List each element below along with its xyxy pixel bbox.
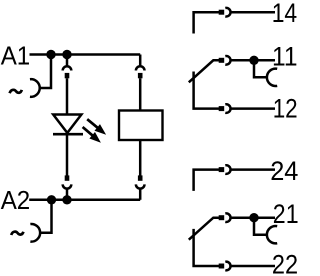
svg-text:22: 22 [272, 250, 298, 276]
wire LED anode [66, 78, 69, 114]
wire A1 horizontal rail [30, 53, 141, 56]
connector female arc (row 21) [225, 213, 230, 222]
svg-text:A1: A1 [1, 41, 31, 71]
node junction dot 2 on A2 rail [62, 195, 71, 204]
terminal label 24 [270, 156, 298, 186]
wire row 11 to terminal [231, 59, 275, 62]
node junction dot 2 on A1 rail [62, 50, 71, 59]
wire LED cathode [66, 134, 69, 175]
A1 base socket contact arc [30, 79, 40, 97]
AC tilde symbol at A1 [10, 90, 22, 93]
terminal label A2 [1, 185, 31, 215]
contact blade (common 11) [189, 60, 219, 82]
connector male pin square (coil branch, bottom) [138, 175, 143, 180]
wire socket drop for terminal 11 [254, 60, 267, 77]
wire A2 socket drop [40, 200, 51, 233]
node junction dot on row 11 [249, 56, 258, 65]
base socket contact arc terminal 11 [267, 69, 277, 86]
terminal label 14 [272, 0, 298, 28]
wire A1 socket drop [40, 55, 51, 89]
connector male pin square (row 11) [219, 58, 225, 63]
wire LED branch stub to A2 rail [66, 189, 69, 200]
connector female arc (row 12) [225, 104, 230, 113]
wire LED branch stub below dot 2 [66, 55, 69, 67]
svg-text:11: 11 [272, 41, 298, 71]
connector male pin square (coil branch, top) [138, 73, 143, 78]
wire row 14 to terminal [231, 11, 275, 14]
wire row 22 to terminal [231, 265, 275, 268]
LED cathode bar [53, 133, 83, 136]
terminal label 12 [273, 93, 298, 123]
svg-text:14: 14 [272, 0, 298, 28]
LED emission arrow 1 [87, 119, 106, 135]
connector male pin square (row 22) [219, 264, 225, 269]
base socket contact arc terminal 21 [267, 226, 277, 243]
wire NC fixed contact to row 12 [194, 72, 219, 109]
connector female arc (LED branch, bottom) [63, 184, 72, 188]
terminal label 22 [272, 250, 298, 276]
terminal label 21 [273, 199, 299, 229]
LED diode triangle [53, 115, 81, 133]
svg-text:A2: A2 [1, 185, 31, 215]
connector female arc (row 11) [225, 56, 230, 65]
node junction dot 1 on A2 rail [47, 195, 56, 204]
connector female arc (row 22) [225, 262, 230, 271]
connector female arc (coil branch, bottom) [136, 184, 145, 188]
svg-text:24: 24 [270, 156, 298, 186]
svg-text:21: 21 [273, 199, 299, 229]
connector male pin square (row 24) [219, 167, 225, 172]
wire row 24 to terminal [231, 168, 275, 171]
connector female arc (LED branch, top) [63, 66, 72, 70]
LED emission arrow 2 [83, 127, 101, 143]
A2 base socket contact arc [30, 224, 40, 242]
connector male pin square (LED branch, top) [65, 73, 70, 78]
wire NC fixed contact to row 22 [194, 229, 219, 266]
wire row 21 to terminal [231, 216, 275, 219]
connector female arc (row 24) [225, 165, 230, 174]
wire terminal 14 branch with NO stub [194, 12, 219, 33]
wire coil branch stub to A2 rail [139, 189, 142, 200]
wire A2 horizontal rail [29, 199, 140, 202]
relay coil K1 [119, 111, 163, 141]
wire coil branch drop from A1 rail [139, 55, 142, 67]
connector male pin square (row 14) [219, 10, 225, 15]
svg-text:12: 12 [273, 93, 298, 123]
connector male pin square (row 12) [219, 106, 225, 111]
connector female arc (row 14) [225, 8, 230, 17]
contact blade (common 21) [189, 218, 219, 240]
wire coil bottom lead [139, 140, 142, 176]
connector male pin square (row 21) [219, 215, 225, 220]
terminal label A1 [1, 41, 31, 71]
wire coil top lead [139, 78, 142, 110]
node junction dot on row 21 [249, 213, 258, 222]
AC tilde symbol at A2 [11, 232, 23, 235]
wire row 12 to terminal [231, 107, 275, 110]
connector female arc (coil branch, top) [136, 66, 145, 70]
node junction dot 1 on A1 rail [46, 50, 55, 59]
wire terminal 24 branch with NO stub [194, 170, 219, 191]
wire socket drop for terminal 21 [254, 218, 267, 235]
terminal label 11 [272, 41, 298, 71]
connector male pin square (LED branch, bottom) [65, 175, 70, 180]
